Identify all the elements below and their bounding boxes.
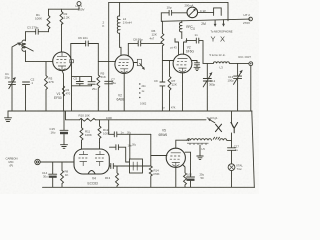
wire grid divider join: [82, 143, 100, 150]
node junction dot: [188, 139, 190, 141]
wire top HT rail: [109, 2, 228, 20]
ground chassis symbol: [5, 111, 12, 122]
resistor R5: [97, 62, 106, 111]
wire HT vertical feed: [108, 2, 110, 111]
wire right border: [252, 111, 255, 187]
resistor R3: [45, 62, 54, 111]
resistor R12: [98, 120, 110, 143]
connector key plugs: [201, 20, 225, 27]
capacitor V3 cathode bypass with ground: [192, 61, 200, 71]
wire main earth rail: [8, 110, 252, 112]
resistor R10: [79, 113, 96, 121]
capacitor C3: [26, 26, 49, 35]
wire meter to key jack: [198, 11, 214, 13]
ground transformer centre tap: [197, 145, 203, 160]
resistor R7: [168, 61, 177, 112]
capacitor C18 electrolytic: [185, 152, 205, 187]
wire V1 grid: [26, 61, 53, 63]
tube V4 double triode: [74, 149, 109, 186]
capacitor C12 variable: [203, 63, 215, 111]
wire modulator feed W3: [66, 111, 80, 120]
wire V1 anode to R2: [61, 24, 63, 52]
labels small values above rail: [162, 107, 176, 110]
capacitor C9: [154, 61, 165, 112]
resistor R4: [62, 86, 70, 96]
wire V2 top stubs: [120, 43, 129, 55]
resistor R2: [60, 9, 70, 24]
wire V2 cathode to rail: [123, 74, 125, 112]
resistor R11: [80, 120, 92, 143]
inductor L1 variable antenna coil: [17, 32, 33, 62]
inductor L2 anode choke: [117, 2, 131, 47]
resistor R1: [35, 9, 50, 32]
tube V3: [173, 46, 194, 73]
capacitor C13 variable: [228, 63, 243, 111]
capacitor C14: [42, 162, 57, 187]
wire HT1 rail: [49, 8, 80, 10]
resistor R8: [61, 162, 69, 187]
capacitor C17: [228, 144, 240, 163]
capacitor C10 keying: [161, 5, 187, 21]
meter M1: [185, 4, 198, 18]
capacitor C5 cathode bypass: [72, 62, 98, 111]
capacitor C coupling 10n: [109, 156, 167, 169]
wire V1 cathode to rail: [62, 71, 64, 111]
wire bottom earth rail: [43, 186, 255, 188]
wire V5 cathode: [175, 167, 177, 187]
capacitor C8: [128, 36, 162, 46]
wire V3 grid: [162, 60, 173, 62]
wire V3 anode and screen stubs: [175, 39, 187, 55]
tube V5: [159, 128, 186, 167]
resistor R14: [149, 166, 159, 187]
node RF output terminal: [239, 55, 253, 111]
capacitor C11 output coupling: [186, 27, 203, 64]
node HT2 terminal: [243, 13, 252, 25]
wire V1 screen side: [70, 44, 72, 59]
transformer box T3: [130, 159, 143, 173]
resistor R15: [183, 165, 193, 188]
switch S1 key jack: [200, 8, 221, 15]
capacitor C7: [103, 21, 117, 86]
node microphone terminal: [6, 156, 41, 167]
inductor L3 tank coil: [203, 53, 249, 70]
resistor R13: [105, 166, 119, 187]
tube V2: [115, 55, 134, 102]
wire microphone lead: [40, 161, 74, 163]
wire V5 anode to transformer: [176, 140, 187, 148]
capacitor C15 smoothing: [50, 111, 69, 148]
capacitor C1 trimmer: [5, 44, 18, 111]
connector Y plug: [231, 111, 238, 147]
inductor RFC: [179, 21, 193, 39]
wire V5 grid drop: [150, 134, 152, 166]
junction dots column: [139, 83, 147, 105]
crystal XTAL: [228, 163, 243, 187]
wire V3 cathode to rail: [182, 73, 184, 111]
node HT1 terminal: [76, 2, 85, 12]
wire HT2 rail: [161, 19, 250, 21]
label microphone input: [211, 29, 233, 43]
resistor R6: [152, 21, 164, 60]
transformer box T2: [130, 134, 137, 159]
wire W3 to grid feed: [96, 119, 207, 121]
wire C6 to V2 grid: [98, 44, 115, 62]
capacitor C16: [106, 116, 151, 137]
electrode V2 diode section with arrow: [134, 59, 145, 70]
connector X plug to V3: [207, 116, 222, 131]
tube V1: [53, 52, 74, 100]
capacitor 10n to T3: [110, 143, 133, 162]
capacitor C2: [23, 77, 35, 111]
capacitor C6: [71, 36, 99, 46]
transformer T1 modulation: [187, 137, 232, 151]
